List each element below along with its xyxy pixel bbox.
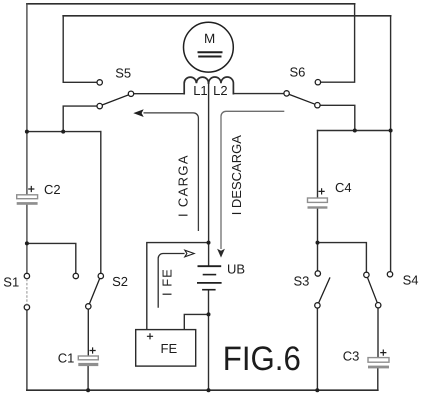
arrow I CARGA head [133, 109, 143, 117]
wire left main vertical upper (top rail to C2) [26, 4, 28, 195]
svg-text:S6: S6 [290, 64, 306, 79]
capacitor C2 bottom plate [17, 202, 38, 205]
wire bottom rail [27, 389, 378, 391]
svg-text:L1: L1 [193, 83, 207, 98]
capacitor C1 plus [90, 347, 96, 353]
motor DC bars [198, 52, 223, 56]
switch S1 blade (closed) [26, 279, 28, 305]
switch S4 pivot [376, 303, 381, 308]
wire left main vertical mid (C2 to S1) [26, 205, 28, 273]
battery UB plate2 short [203, 274, 217, 276]
wire inner top rail [63, 15, 390, 17]
svg-text:UB: UB [227, 261, 245, 276]
switch S1 top contact [24, 273, 29, 278]
switch S2 blade [89, 279, 99, 304]
svg-text:C2: C2 [44, 182, 61, 197]
node dot right rail inner drop [389, 129, 393, 133]
wire L2 to S6 left contact [233, 93, 284, 95]
arrow I DESCARGA head [217, 249, 225, 258]
wire left main vertical lower (S1 to bottom rail) [26, 310, 28, 390]
wire S5 right contact to L1 [134, 93, 185, 95]
svg-text:S1: S1 [3, 275, 19, 290]
svg-text:C4: C4 [335, 180, 352, 195]
capacitor C3 plus [380, 350, 386, 356]
switch S3 blade (open) [319, 277, 330, 303]
svg-text:C3: C3 [343, 348, 360, 363]
wire S5 pivot to left rail junction [63, 106, 97, 132]
arrow I FE head (open) [185, 250, 194, 257]
wire rail y131.6 left [27, 131, 101, 133]
fuel cell FE box [136, 330, 196, 367]
svg-text:FIG.6: FIG.6 [223, 340, 301, 378]
wire FE right terminal up to battery- junction [184, 314, 208, 329]
wire outer top rail [27, 3, 355, 5]
capacitor C3 top plate [368, 358, 389, 363]
battery UB plate1 long [198, 265, 222, 267]
motor U=M circle [184, 22, 234, 72]
svg-text:FE: FE [161, 341, 178, 356]
wire battery+ junction left to FE+ [147, 243, 209, 330]
switch S2 pivot [86, 304, 91, 309]
switch S3 pivot [315, 303, 320, 308]
wire right rail y130.5 [318, 130, 391, 132]
wire C1 to bottom rail [87, 366, 89, 390]
svg-text:S5: S5 [115, 65, 131, 80]
arrow I CARGA path [144, 113, 199, 231]
wire inner left drop to S5 upper contact [63, 16, 97, 83]
switch S4 blade [367, 277, 377, 303]
switch S3 top contact [315, 271, 320, 276]
switch S1 bottom contact [24, 305, 29, 310]
inductor L1 [184, 77, 208, 94]
wire S6 pivot right then down to right rail [320, 105, 355, 130]
wire from rail down to S2 right contact [100, 132, 102, 274]
svg-text:I CARGA: I CARGA [176, 154, 191, 217]
wire C4 to junction and S3 top contact [317, 209, 319, 271]
switch S4 right contact [387, 272, 392, 277]
battery UB plate4 short [202, 289, 216, 291]
switch S4 left contact [364, 272, 369, 277]
node dot C2 bottom junction [25, 241, 29, 245]
switch S6 blade [289, 94, 315, 104]
battery UB plate3 long [197, 282, 222, 284]
wire battery bottom down to bottom rail [208, 291, 210, 391]
FE plus [147, 333, 153, 339]
svg-text:I DESCARGA: I DESCARGA [229, 135, 244, 216]
wire S2 pivot to C1 [87, 309, 89, 356]
svg-text:I FE: I FE [160, 268, 175, 296]
wire C2 junction to S2 left contact [27, 243, 76, 273]
wire outer right drop to S6 right contact [321, 4, 355, 82]
svg-text:S2: S2 [112, 274, 128, 289]
switch S5 contact B [128, 91, 133, 96]
wire S3 pivot down to bottom rail [316, 308, 318, 390]
switch S5 contact A [97, 80, 102, 85]
node dot battery branch on bottom rail [207, 388, 211, 392]
capacitor C2 top plate [17, 195, 38, 199]
capacitor C1 bottom plate [78, 363, 98, 366]
node dot S5 branch on rail [61, 130, 65, 134]
arrow I DESCARGA path [221, 111, 284, 249]
capacitor C1 top plate [78, 356, 98, 360]
node dot S3 on bottom rail [315, 388, 319, 392]
wire right rail down to C4 [317, 131, 319, 198]
switch S6 contact A [315, 80, 320, 85]
capacitor C4 top plate [308, 198, 328, 202]
switch S2 right contact [98, 273, 103, 278]
svg-text:M: M [204, 31, 215, 46]
node dot C1 on bottom rail [86, 388, 90, 392]
wire inner right drop down to S4 right contact [390, 16, 392, 272]
switch S2 left contact [73, 273, 78, 278]
capacitor C3 bottom plate [368, 366, 389, 369]
switch S5 blade [102, 95, 128, 105]
node dot right rail S6 branch [353, 129, 357, 133]
node dot C4 bottom junction [316, 241, 320, 245]
svg-text:C1: C1 [58, 351, 75, 366]
switch S6 pivot [315, 103, 320, 108]
node dot rail-left on main vertical [25, 130, 29, 134]
wire center tap L1L2 down to battery top [208, 83, 210, 265]
capacitor C4 plus [319, 188, 325, 194]
capacitor C2 plus [28, 186, 34, 192]
node dot battery+ junction [207, 241, 211, 245]
inductor L2 [209, 77, 234, 94]
switch S6 contact B [284, 91, 289, 96]
wire C3 down to bottom rail corner [377, 369, 379, 391]
switch S5 pivot [97, 103, 102, 108]
svg-text:L2: L2 [213, 83, 227, 98]
capacitor C4 bottom plate [308, 206, 328, 208]
svg-text:S4: S4 [403, 273, 419, 288]
wire S4 pivot down to C3 [377, 308, 379, 358]
wire C4 junction right then down to S4 left contact [318, 243, 367, 273]
svg-text:S3: S3 [294, 273, 310, 288]
node dot battery- junction [207, 312, 211, 316]
arrow I FE path [158, 254, 184, 308]
